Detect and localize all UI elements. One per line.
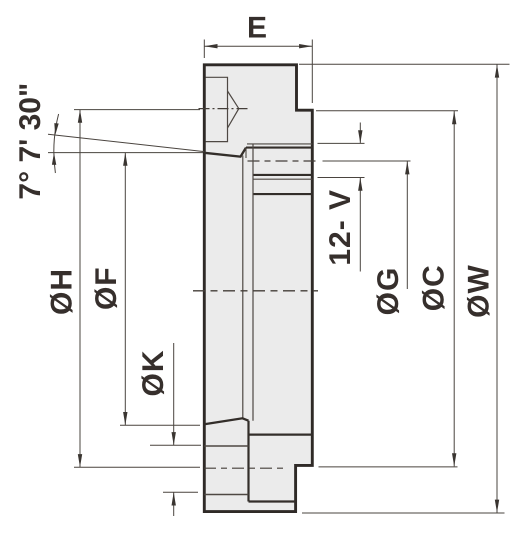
OH bottom extension <box>74 466 200 468</box>
12-V down / up (outside) <box>358 130 362 143</box>
OC dimension line <box>453 111 455 466</box>
angle arc <box>54 114 59 173</box>
OH up / down <box>78 110 82 123</box>
svg-text:ØH: ØH <box>45 268 78 315</box>
E extension lines <box>203 40 205 59</box>
taper horizontal leg / OF top extension <box>48 152 203 154</box>
arrowheads <box>52 44 499 513</box>
OF dimension line <box>124 153 126 426</box>
hub bore lines (thin) <box>204 445 248 447</box>
OW dimension line <box>496 64 498 512</box>
main axis centerline (dash-dot) <box>193 290 318 292</box>
OG dimension line <box>406 161 408 289</box>
counterbored pilot hole rectangle (top, thin) <box>206 77 228 141</box>
taper mouth slant (top, thick) <box>204 148 246 157</box>
bolt hole centerline (dash-dot) <box>248 160 317 162</box>
pilot hole centerline (dash-dot) <box>199 108 248 110</box>
OH dimension line <box>79 110 81 468</box>
taper socket wall verticals (thin) <box>242 156 244 419</box>
thread start small vertical <box>245 148 247 158</box>
OF bottom extension <box>120 424 200 426</box>
angle arc arrows <box>54 123 58 135</box>
E left / right <box>204 44 217 48</box>
hub inner step verticals/horizontals (bottom, thick) <box>247 421 249 502</box>
svg-text:ØC: ØC <box>418 264 451 311</box>
tapped hole thread lines (top half) <box>246 147 312 149</box>
taper mouth slant (bottom, thick) <box>204 418 248 424</box>
center-drill cone mark <box>228 91 239 128</box>
OG extension <box>323 160 411 162</box>
OG up <box>405 161 409 174</box>
svg-text:12- V: 12- V <box>324 189 357 266</box>
OC up / down <box>452 111 456 124</box>
svg-text:E: E <box>247 11 268 44</box>
OW extensions <box>299 63 510 65</box>
OC extensions <box>316 110 458 112</box>
OF up / down <box>123 153 127 166</box>
svg-text:ØG: ØG <box>372 267 405 316</box>
12-V extensions <box>318 142 365 144</box>
12-V dimension tails <box>359 123 361 144</box>
OH top extension <box>74 109 200 111</box>
OK dimension line (two tails) <box>173 343 175 445</box>
OK extensions <box>150 444 201 446</box>
svg-text:7° 7' 30": 7° 7' 30" <box>14 83 47 200</box>
svg-text:ØK: ØK <box>137 350 170 397</box>
bottom hole centerline (dash-dot) <box>204 467 288 469</box>
svg-text:ØF: ØF <box>90 266 123 310</box>
flange body cross-section fill <box>204 65 312 512</box>
E dimension line <box>204 45 312 47</box>
OK down / up (outside) <box>172 432 176 445</box>
taper slant extended (angle leg) <box>48 134 204 151</box>
svg-text:ØW: ØW <box>463 264 496 318</box>
OW up / down <box>495 64 499 77</box>
